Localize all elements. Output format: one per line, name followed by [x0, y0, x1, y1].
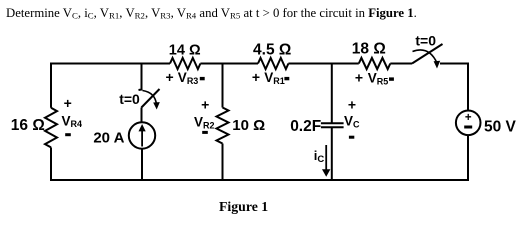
- switch SW2 arrowhead: [434, 61, 441, 69]
- svg-text:+: +: [355, 69, 363, 85]
- svg-text:50 V: 50 V: [484, 119, 517, 136]
- figure caption: [219, 199, 268, 215]
- svg-text:16 Ω: 16 Ω: [11, 117, 45, 134]
- svg-text:VR5: VR5: [368, 71, 389, 87]
- svg-text:t=0: t=0: [119, 91, 140, 107]
- svg-text:+: +: [201, 97, 209, 113]
- wire bottom rail: [50, 179, 469, 181]
- wire left branch upper: [50, 63, 52, 108]
- svg-text:VR3: VR3: [178, 70, 199, 86]
- capacitor C1 top plate: [321, 122, 344, 124]
- capacitor C1 bottom plate: [321, 126, 344, 128]
- wire capacitor to bottom rail: [331, 127, 333, 180]
- switch SW2 blade (t=0, open, top right): [412, 44, 443, 64]
- resistor R4 16ohm: [45, 108, 57, 148]
- current source I1 arrow: [141, 129, 143, 147]
- svg-text:VC: VC: [344, 114, 360, 130]
- current ic arrowhead: [322, 169, 330, 177]
- current source I1 20A circle: [129, 122, 155, 148]
- label VR4 minus sign: [65, 133, 71, 136]
- wire R2 branch upper: [222, 64, 224, 108]
- wire top rail switch to right corner: [440, 63, 468, 65]
- wire capacitor branch upper: [331, 64, 333, 124]
- wire top rail between R1 and R5: [288, 63, 358, 65]
- resistor R1 4.5ohm: [258, 58, 288, 69]
- wire top rail between R3 and R1: [200, 63, 258, 65]
- switch SW1 motion arc: [143, 91, 157, 106]
- wire top rail left segment: [51, 63, 170, 65]
- switch SW2 motion arc: [413, 50, 438, 63]
- voltage source minus sign: [464, 126, 472, 129]
- svg-text:t=0: t=0: [415, 33, 436, 49]
- svg-text:4.5 Ω: 4.5 Ω: [253, 42, 291, 59]
- svg-text:10 Ω: 10 Ω: [232, 117, 265, 134]
- svg-text:iC: iC: [314, 148, 325, 165]
- svg-text:VR2: VR2: [194, 115, 215, 131]
- svg-text:VR1: VR1: [264, 70, 285, 86]
- wire right branch lower: [467, 135, 469, 180]
- svg-text:+: +: [166, 69, 174, 85]
- problem statement text: [6, 6, 526, 21]
- wire switch branch from top rail: [139, 64, 142, 91]
- resistor R3 14ohm: [170, 58, 200, 69]
- wire top rail R5 to switch contact: [390, 63, 412, 65]
- label VR2 minus sign: [202, 131, 208, 134]
- switch SW1 arrowhead: [153, 102, 160, 109]
- svg-text:+: +: [252, 69, 260, 85]
- wire R2 branch lower: [222, 144, 224, 181]
- svg-text:+: +: [348, 97, 356, 113]
- svg-text:+: +: [465, 112, 472, 124]
- switch SW1 blade (t=0, left branch): [141, 89, 159, 108]
- voltage source V1 50V circle: [456, 111, 481, 136]
- wire current source to bottom rail: [141, 149, 143, 180]
- wire switch to current source: [141, 108, 143, 123]
- wire left branch lower: [50, 147, 52, 181]
- svg-text:+: +: [64, 95, 72, 111]
- svg-text:20 A: 20 A: [93, 130, 124, 147]
- resistor R2 10ohm: [217, 108, 229, 144]
- svg-text:18 Ω: 18 Ω: [352, 41, 386, 58]
- svg-text:VR4: VR4: [62, 113, 83, 129]
- svg-text:14 Ω: 14 Ω: [169, 43, 201, 59]
- resistor R5 18ohm: [359, 58, 391, 69]
- current ic annotation arrow line: [325, 145, 327, 170]
- label VC minus sign: [349, 136, 354, 139]
- svg-text:0.2F: 0.2F: [290, 118, 321, 135]
- wire right branch upper: [467, 63, 469, 111]
